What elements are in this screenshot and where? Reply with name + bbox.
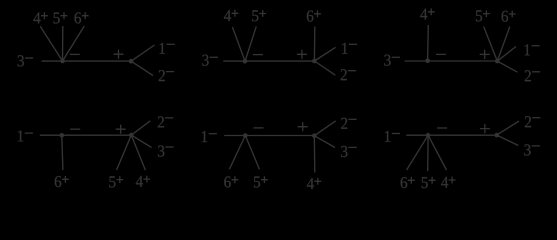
d2 left vertex helicity minus sign xyxy=(253,54,263,56)
d5 wire to leg 5+ xyxy=(245,136,259,170)
d6 external leg label 6^+ superscript plus xyxy=(408,177,415,184)
d4 external leg label 6^+ digit 6 xyxy=(55,176,62,187)
d1 external leg label 2^- superscript minus xyxy=(166,71,174,73)
d5 external leg label 2^- superscript minus xyxy=(348,118,356,120)
d5 wire to leg 3- xyxy=(314,136,335,148)
d1 wire to leg 4+ xyxy=(40,26,62,61)
d4 wire to leg 3- xyxy=(131,135,151,147)
d6 external leg label 1^- superscript minus xyxy=(392,133,400,135)
d1 wire to leg 5+ xyxy=(62,26,64,61)
d1 left vertex node xyxy=(60,59,65,64)
d2 external leg label 5^+ digit 5 xyxy=(252,10,258,21)
d4 wire to leg 2- xyxy=(131,121,150,135)
d1 external leg label 1^- superscript minus xyxy=(167,43,175,45)
d3 external leg label 2^- superscript minus xyxy=(532,71,540,73)
d4 wire to leg 6+ xyxy=(62,135,63,170)
d1 external leg label 6^+ digit 6 xyxy=(75,12,82,23)
d6 external leg label 4^+ digit 4 xyxy=(441,177,448,188)
d4 external leg label 4^+ digit 4 xyxy=(136,176,143,187)
d5 external leg label 6^+ superscript plus xyxy=(232,176,239,183)
d6 left vertex node xyxy=(426,133,431,138)
d5 horizontal propagator wire xyxy=(224,135,314,137)
d6 external leg label 2^- digit 2 xyxy=(525,116,531,127)
d3 wire to leg 6+ xyxy=(497,27,510,62)
d1 external leg label 4^+ superscript plus xyxy=(41,12,48,19)
d3 left vertex helicity minus sign xyxy=(436,53,446,55)
d2 external leg label 1^- digit 1 xyxy=(342,43,347,54)
d2 external leg label 5^+ superscript plus xyxy=(259,10,266,17)
d1 external leg label 6^+ superscript plus xyxy=(82,12,89,19)
d3 wire to leg 2- xyxy=(497,61,517,72)
d2 wire to leg 1- xyxy=(314,47,335,61)
d5 external leg label 4^+ superscript plus xyxy=(314,178,321,185)
d6 wire to leg 2- xyxy=(497,121,519,135)
d2 wire to leg 6+ xyxy=(313,27,315,62)
d3 external leg label 1^- superscript minus xyxy=(532,45,540,47)
d1 wire to leg 6+ xyxy=(63,26,85,61)
d2 wire to leg 2- xyxy=(314,61,335,75)
d4 external leg label 2^- digit 2 xyxy=(158,116,164,127)
d4 external leg label 3^- digit 3 xyxy=(158,146,164,157)
d2 external leg label 3^- digit 3 xyxy=(202,55,208,66)
d6 left vertex helicity minus sign xyxy=(437,127,447,129)
d4 external leg label 3^- superscript minus xyxy=(165,146,173,148)
d1 wire to leg 1- xyxy=(131,45,155,61)
d4 external leg label 5^+ digit 5 xyxy=(109,176,115,187)
d1 right vertex helicity plus sign xyxy=(114,50,124,59)
d3 external leg label 6^+ superscript plus xyxy=(509,11,516,18)
d1 external leg label 3^- superscript minus xyxy=(25,57,33,59)
d6 external leg label 5^+ digit 5 xyxy=(422,177,428,188)
d6 external leg label 2^- superscript minus xyxy=(532,117,540,119)
d4 left vertex node xyxy=(60,133,65,138)
d6 external leg label 3^- superscript minus xyxy=(532,145,540,147)
d5 right vertex helicity plus sign xyxy=(298,122,308,131)
d1 horizontal propagator wire xyxy=(42,60,131,62)
d1 external leg label 3^- digit 3 xyxy=(18,55,24,66)
d6 right vertex helicity plus sign xyxy=(480,124,490,133)
d3 external leg label 4^+ digit 4 xyxy=(420,9,427,20)
d5 wire to leg 4+ xyxy=(313,136,316,173)
d2 external leg label 4^+ digit 4 xyxy=(224,10,231,21)
d6 external leg label 1^- digit 1 xyxy=(385,131,390,142)
d6 external leg label 3^- digit 3 xyxy=(524,144,530,155)
d6 wire to leg 6+ xyxy=(407,135,429,170)
d6 external leg label 4^+ superscript plus xyxy=(449,177,456,184)
d3 external leg label 2^- digit 2 xyxy=(525,70,531,81)
d3 external leg label 3^- digit 3 xyxy=(384,55,390,66)
d4 external leg label 6^+ superscript plus xyxy=(62,176,69,183)
d4 wire to leg 5+ xyxy=(117,135,132,170)
d3 wire to leg 1- xyxy=(497,47,516,62)
d4 external leg label 4^+ superscript plus xyxy=(143,176,150,183)
d3 left vertex node xyxy=(425,59,430,64)
d2 right vertex node xyxy=(312,59,317,64)
d4 external leg label 1^- digit 1 xyxy=(18,130,23,141)
d1 external leg label 4^+ digit 4 xyxy=(33,12,40,23)
d3 external leg label 4^+ superscript plus xyxy=(428,8,435,15)
d6 external leg label 6^+ digit 6 xyxy=(401,177,408,188)
d2 right vertex helicity plus sign xyxy=(297,50,307,59)
d2 external leg label 6^+ superscript plus xyxy=(314,10,321,17)
d4 horizontal propagator wire xyxy=(40,134,132,136)
d5 external leg label 2^- digit 2 xyxy=(341,118,347,129)
d4 right vertex node xyxy=(129,133,134,138)
d4 wire to leg 4+ xyxy=(131,135,145,170)
d2 external leg label 4^+ superscript plus xyxy=(232,10,239,17)
d5 external leg label 5^+ superscript plus xyxy=(261,176,268,183)
d4 external leg label 2^- superscript minus xyxy=(165,117,173,119)
d2 wire to leg 4+ xyxy=(232,27,245,61)
d5 left vertex helicity minus sign xyxy=(254,127,264,129)
d3 wire to leg 5+ xyxy=(484,27,498,62)
d3 wire to leg 4+ xyxy=(427,25,430,61)
d5 external leg label 1^- superscript minus xyxy=(209,133,217,135)
d3 right vertex node xyxy=(495,59,500,64)
d2 horizontal propagator wire xyxy=(223,60,314,62)
d3 external leg label 5^+ digit 5 xyxy=(476,10,482,21)
d2 external leg label 1^- superscript minus xyxy=(349,43,357,45)
d1 external leg label 2^- digit 2 xyxy=(159,70,165,81)
d3 external leg label 3^- superscript minus xyxy=(392,56,400,58)
d1 external leg label 5^+ digit 5 xyxy=(54,13,60,24)
d1 external leg label 5^+ superscript plus xyxy=(61,12,68,19)
d2 wire to leg 5+ xyxy=(245,26,256,61)
d1 external leg label 1^- digit 1 xyxy=(160,43,165,54)
d5 external leg label 3^- digit 3 xyxy=(341,146,347,157)
d3 right vertex helicity plus sign xyxy=(480,50,490,59)
d4 external leg label 5^+ superscript plus xyxy=(116,176,123,183)
d5 external leg label 3^- superscript minus xyxy=(349,146,357,148)
d2 left vertex node xyxy=(243,59,248,64)
d3 external leg label 5^+ superscript plus xyxy=(483,10,490,17)
d2 external leg label 2^- superscript minus xyxy=(348,70,356,72)
d2 external leg label 2^- digit 2 xyxy=(341,69,347,80)
d6 wire to leg 4+ xyxy=(428,135,446,170)
d2 external leg label 3^- superscript minus xyxy=(210,56,218,58)
d5 external leg label 6^+ digit 6 xyxy=(224,176,231,187)
d4 left vertex helicity minus sign xyxy=(70,128,80,130)
d3 external leg label 6^+ digit 6 xyxy=(502,11,509,22)
d6 wire to leg 5+ xyxy=(427,135,429,171)
d5 external leg label 5^+ digit 5 xyxy=(254,177,260,188)
d5 wire to leg 2- xyxy=(314,121,335,136)
d6 wire to leg 3- xyxy=(497,135,519,145)
d3 horizontal propagator wire xyxy=(405,60,498,62)
d5 external leg label 4^+ digit 4 xyxy=(307,178,314,189)
d6 right vertex node xyxy=(494,133,499,138)
d5 right vertex node xyxy=(312,133,317,138)
d5 wire to leg 6+ xyxy=(229,136,245,170)
d2 external leg label 6^+ digit 6 xyxy=(307,11,314,22)
d1 wire to leg 2- xyxy=(131,61,153,75)
d1 left vertex helicity minus sign xyxy=(70,53,80,55)
d4 external leg label 1^- superscript minus xyxy=(25,132,33,134)
d5 left vertex node xyxy=(243,133,248,138)
d5 external leg label 1^- digit 1 xyxy=(202,131,207,142)
d1 right vertex node xyxy=(129,59,134,64)
d4 right vertex helicity plus sign xyxy=(116,125,126,134)
d6 horizontal propagator wire xyxy=(406,134,496,136)
d3 external leg label 1^- digit 1 xyxy=(525,44,530,55)
d6 external leg label 5^+ superscript plus xyxy=(429,177,436,184)
